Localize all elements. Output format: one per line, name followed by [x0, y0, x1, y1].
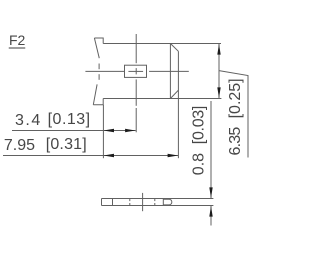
break line vertical dashes	[98, 57, 100, 58]
leader to 6.35 text	[219, 71, 248, 158]
arrow 6.35 up	[217, 44, 220, 55]
bottom view: vertical centerline	[142, 193, 144, 211]
break line lower slant	[93, 84, 97, 104]
fuse F2 side view: bottom flange step	[93, 99, 103, 105]
dimension line 0.8 vertical	[210, 101, 212, 198]
bottom view: clip base plate top edge	[102, 198, 214, 200]
fuse F2 side view: top flange step	[94, 38, 103, 44]
bottom view: rounded dimple slot	[164, 199, 172, 205]
svg-text:3.4: 3.4	[15, 112, 42, 129]
fuse element window rectangle	[125, 65, 147, 77]
svg-text:[0.25]: [0.25]	[227, 78, 244, 118]
bottom view: clip base plate bottom edge	[102, 205, 214, 207]
arrow 6.35 down	[217, 87, 220, 98]
svg-text:F2: F2	[9, 32, 26, 48]
arrow 0.8 up (to plate bottom)	[209, 206, 212, 217]
arrow 3.4 right	[125, 129, 136, 132]
fuse body top edge line with extension to 6.35 dimension	[103, 43, 221, 45]
svg-text:[0.03]: [0.03]	[191, 106, 208, 144]
arrow 7.95 right	[168, 154, 179, 157]
svg-text:6.35: 6.35	[227, 127, 244, 156]
horizontal centerline	[85, 70, 124, 72]
dimension line 6.35 vertical	[218, 44, 220, 98]
end cap bottom chamfer	[170, 90, 178, 98]
end cap top chamfer	[170, 44, 178, 52]
end cap left edge	[169, 44, 171, 99]
bottom view: plate left end edge	[101, 199, 103, 206]
break line upper slant	[94, 38, 99, 58]
bottom view: partial tick 3	[154, 199, 156, 202]
arrow 0.8 down (to plate top)	[209, 187, 212, 198]
label F2	[9, 32, 26, 48]
dimension line 7.95	[3, 155, 178, 157]
svg-text:[0.13]: [0.13]	[48, 111, 91, 128]
bottom view: division tick 4	[162, 199, 164, 206]
end cap inner edge / 7.95 extension line	[177, 51, 179, 158]
dimension line 3.4	[12, 130, 136, 132]
extension line left (x=103.4)	[102, 105, 104, 158]
bottom view: partial tick 2	[129, 199, 131, 202]
fuse body bottom edge line with extension to 6.35 dimension	[103, 98, 221, 100]
svg-text:0.8: 0.8	[191, 153, 208, 175]
svg-text:7.95: 7.95	[4, 137, 35, 154]
bottom view: division tick 1	[112, 199, 114, 206]
vertical centerline	[135, 34, 137, 63]
arrow 3.4 left	[103, 129, 114, 132]
svg-text:[0.31]: [0.31]	[46, 136, 87, 153]
arrow 7.95 left	[103, 154, 114, 157]
